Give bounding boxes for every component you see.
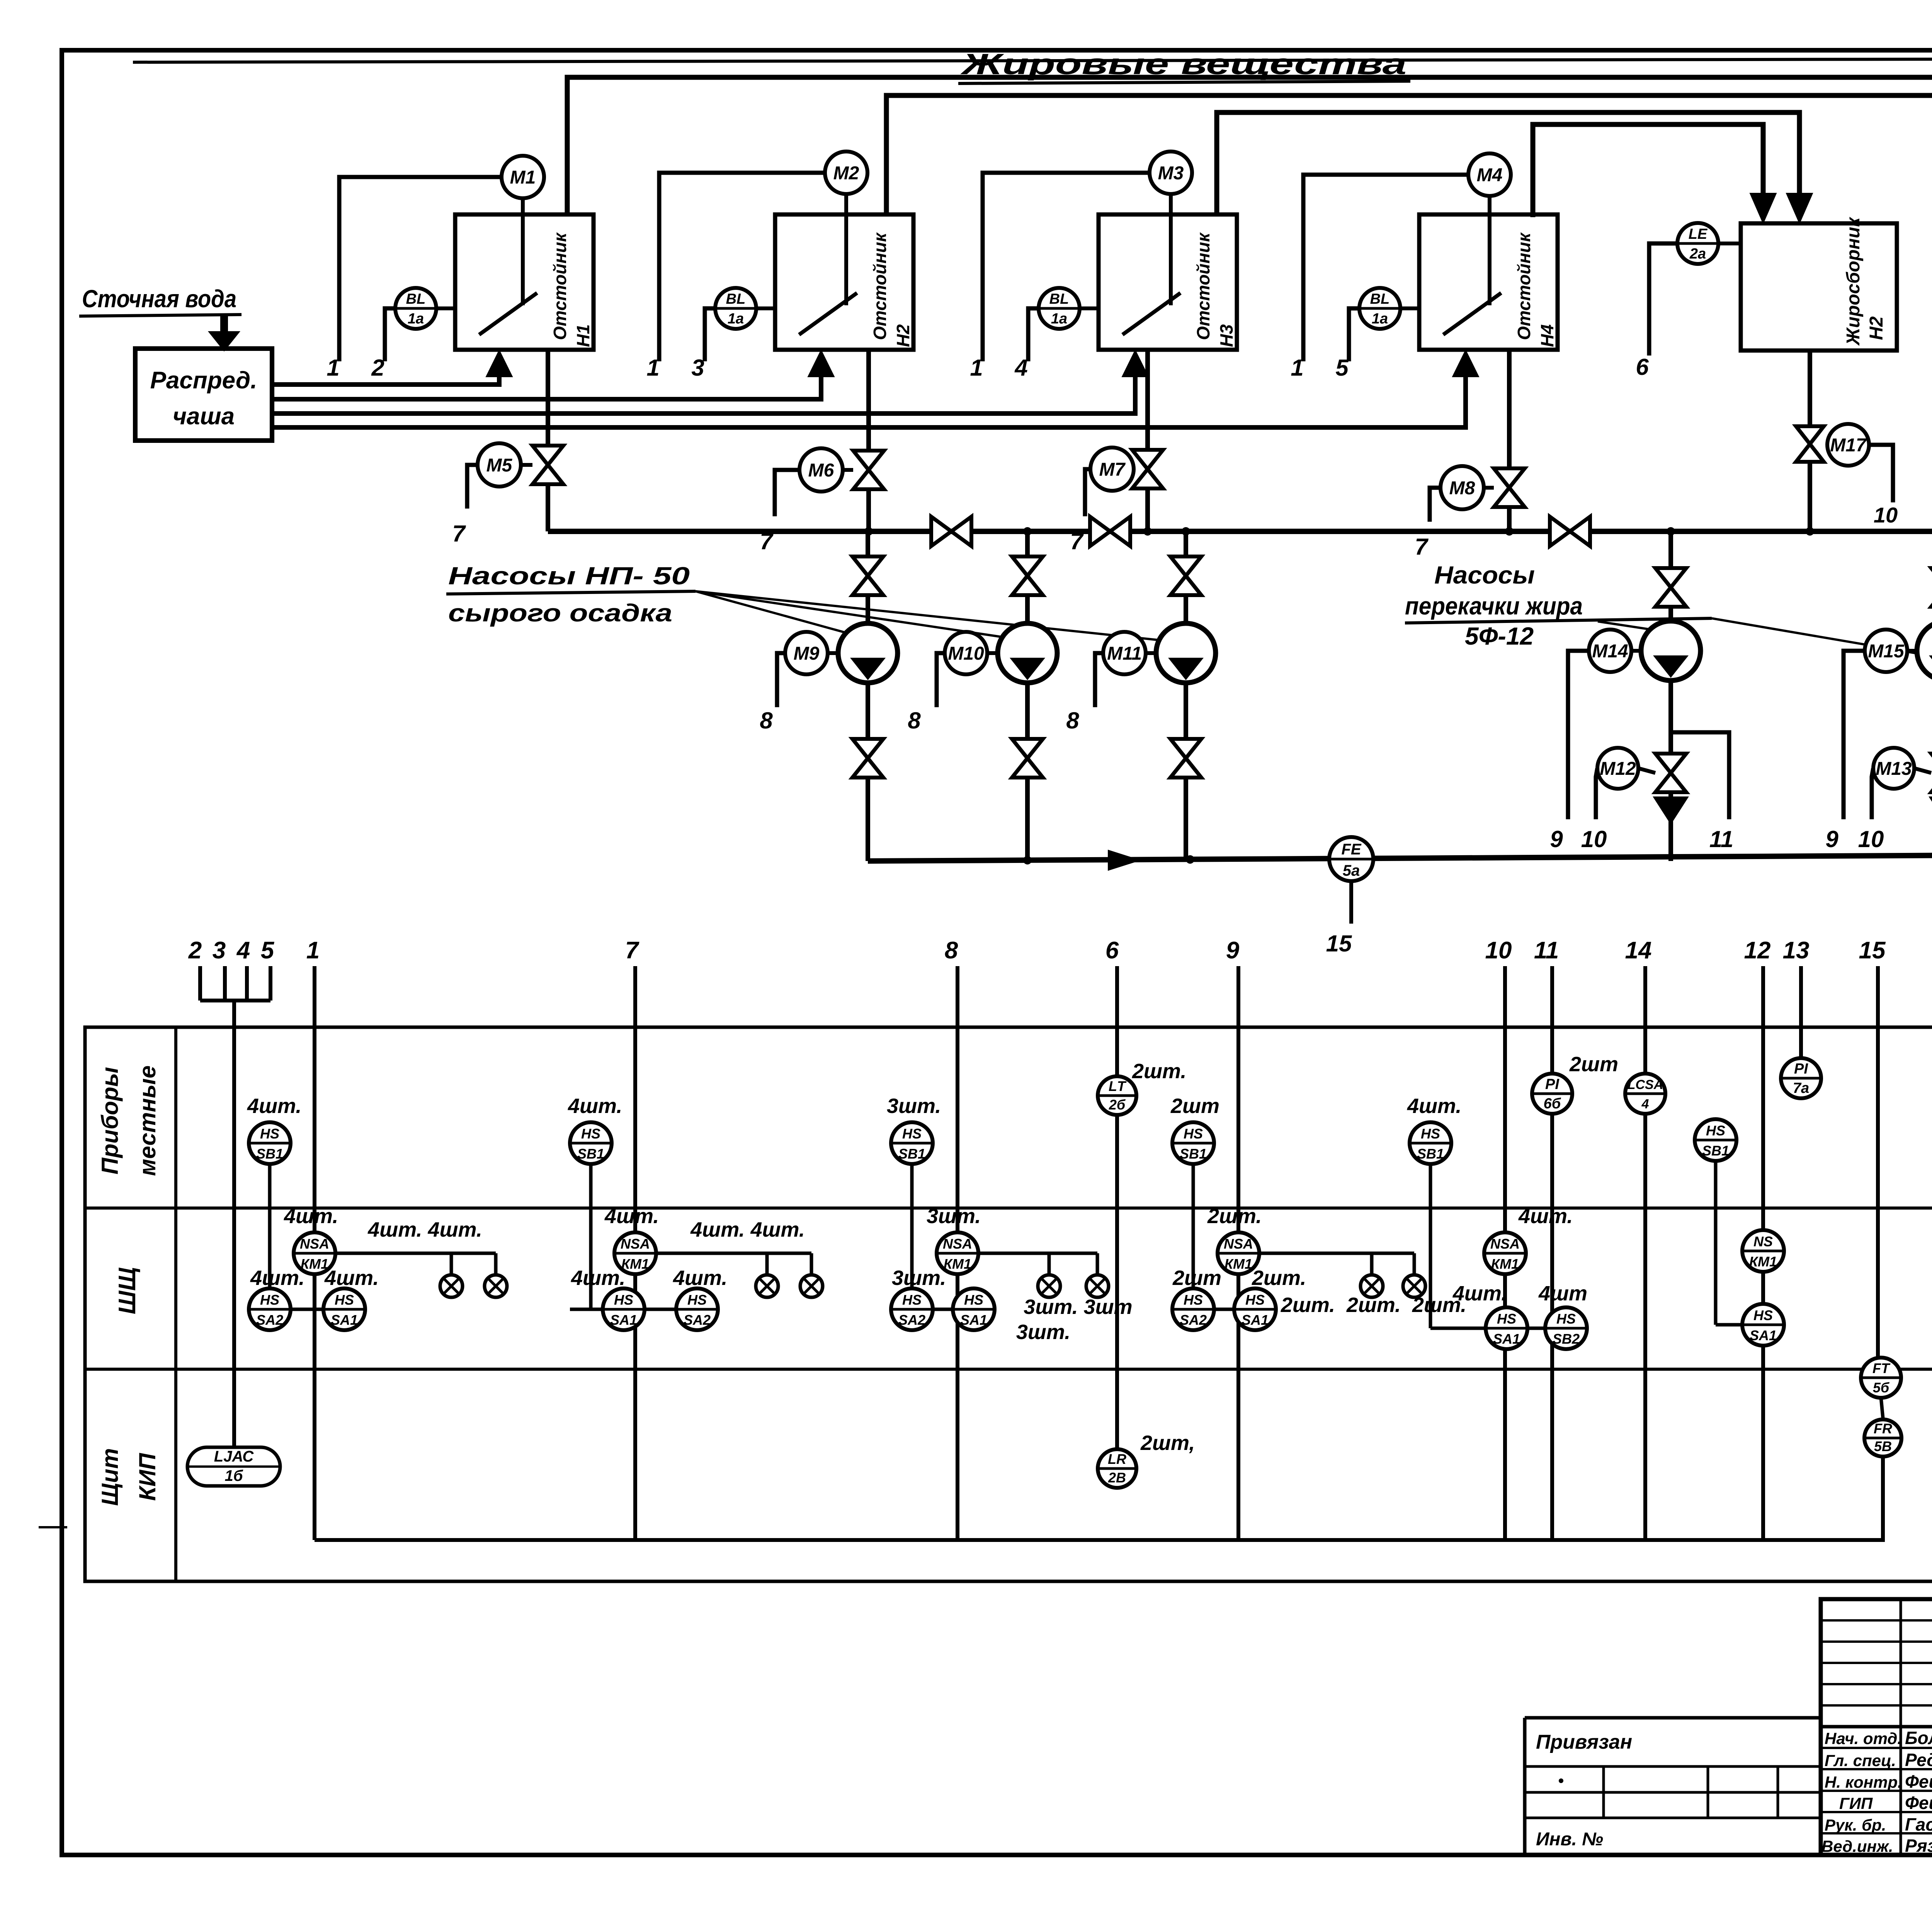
svg-text:SА1: SА1 [1242,1312,1269,1328]
wire М5 cable to stub 7 [452,465,478,546]
level controller LCSA/4 [1625,1074,1665,1114]
svg-text:8: 8 [908,708,921,733]
svg-text:7: 7 [452,521,466,546]
motor М7 [1090,448,1134,491]
svg-text:Жиросборник: Жиросборник [1843,216,1864,346]
svg-text:Фешин: Фешин [1905,1771,1932,1792]
svg-text:Отстойник: Отстойник [870,232,890,340]
contactor NSA/KM1 bay A [284,1205,338,1274]
svg-text:2а: 2а [1689,246,1706,262]
svg-text:LЕ: LЕ [1689,226,1708,242]
row label Приборы местные [97,1065,160,1176]
motor М8 [1440,466,1494,509]
svg-text:1: 1 [970,355,983,381]
wire motor М1 cable to stub 1 [327,177,502,381]
svg-text:4шт.: 4шт. [673,1266,727,1290]
valve on header left 1 [931,517,971,546]
svg-text:ВL: ВL [1049,291,1069,307]
svg-text:Щит: Щит [97,1448,123,1506]
svg-text:SА1: SА1 [1750,1327,1777,1343]
svg-text:М13: М13 [1876,759,1912,779]
position switch BL/1a of tank Н3 [1039,288,1099,329]
svg-text:М14: М14 [1592,641,1628,662]
svg-text:4шт.: 4шт. [324,1266,379,1290]
valve above pump М11 [1170,556,1201,595]
svg-text:КМ1: КМ1 [944,1256,971,1272]
valve of М5 [532,446,563,484]
wire fat line 3 from tank N3 to Жиросборник N2 [1217,112,1813,223]
svg-text:SА2: SА2 [898,1312,925,1328]
wire BL/1a cable to stub 4 [1014,308,1039,381]
svg-text:1а: 1а [408,311,424,327]
wire riser 12 [1761,966,1765,1540]
svg-text:4шт: 4шт [1538,1282,1587,1305]
svg-text:4: 4 [1641,1097,1649,1111]
wire riser 7 [633,966,637,1540]
svg-text:НS: НS [902,1126,922,1142]
hand switch HS/SA2 bay B [673,1266,727,1330]
arrow on line [1108,850,1140,870]
svg-text:5В: 5В [1874,1438,1892,1454]
svg-text:4шт.: 4шт. [284,1205,338,1228]
flow transmitter FT/5б [1861,1358,1901,1418]
svg-text:3шт.: 3шт. [927,1205,981,1228]
pipe below pump М11 [1184,683,1188,861]
svg-text:НS: НS [902,1292,922,1308]
pump НП-50 М11 [1156,623,1216,683]
valve below pump М9 [852,739,883,778]
svg-text:НS: НS [1706,1123,1725,1138]
svg-text:чаша: чаша [173,403,235,430]
svg-text:1: 1 [646,355,659,381]
lamps bay A [335,1218,507,1297]
hand switch HS/SB1 bay B [570,1122,612,1309]
svg-text:8: 8 [945,937,958,964]
svg-text:3шт.: 3шт. [1016,1321,1070,1344]
svg-text:2В: 2В [1108,1470,1126,1486]
svg-text:Отстойник: Отстойник [1514,232,1534,340]
level recorder LR/2В [1098,1431,1195,1488]
valve below pump М11 [1170,739,1201,778]
svg-text:7а: 7а [1793,1080,1809,1096]
wire М10 cable to stub 8 [908,653,945,733]
svg-text:6б: 6б [1544,1096,1561,1112]
hand switch HS/SB1 bay C [891,1122,933,1309]
wire М14 cable to stub 9 [1550,651,1589,852]
valve below pump М10 [1012,739,1043,778]
svg-text:М5: М5 [486,455,513,476]
svg-text:14: 14 [1625,937,1652,964]
svg-text:1б: 1б [224,1467,243,1484]
wire fat line 2 from tank N2 to Жиросборник N1 [886,95,1932,223]
pipe outlet of tank at x2970 [1145,350,1150,531]
lamps bay B [656,1218,823,1297]
svg-text:НS: НS [1556,1311,1576,1327]
motor М15 [1865,630,1917,672]
svg-text:2шт.: 2шт. [1132,1060,1186,1083]
svg-text:3шт.: 3шт. [892,1266,946,1290]
svg-text:SА1: SА1 [331,1312,358,1328]
svg-text:8: 8 [1066,708,1079,733]
motor М5 [478,443,532,487]
motor М4 [1468,153,1511,196]
svg-text:9: 9 [1825,826,1838,852]
valve of М6 [853,451,884,489]
svg-text:НS: НS [1245,1292,1265,1308]
svg-text:КМ1: КМ1 [1749,1254,1777,1269]
motor М9 [785,632,838,674]
svg-text:SВ1: SВ1 [1417,1146,1444,1162]
svg-text:6: 6 [1636,354,1649,380]
svg-text:Вед.инж.: Вед.инж. [1821,1837,1893,1855]
position switch BL/1a of tank Н2 [715,288,775,329]
svg-text:Сточная вода: Сточная вода [82,285,236,313]
svg-text:М1: М1 [510,167,536,188]
svg-text:FR: FR [1874,1421,1892,1436]
svg-text:10: 10 [1874,503,1898,527]
wire М15 cable to stub 9 [1825,651,1865,852]
svg-text:2: 2 [371,355,384,381]
wire BL/1a cable to stub 2 [371,308,395,381]
svg-text:10: 10 [1858,826,1884,852]
wire М11 cable to stub 8 [1066,653,1103,733]
wire М8 cable to stub 7 [1415,488,1440,560]
svg-text:2шт.: 2шт. [1346,1293,1401,1317]
pipe pressure line emptying [868,852,1932,864]
svg-text:4шт.: 4шт. [1518,1205,1573,1228]
hand switch HS/SB1 bay F [1695,1119,1742,1325]
fat collector Жиросборник N2 [1741,216,1897,351]
svg-text:3шт. 3шт: 3шт. 3шт [1024,1295,1132,1319]
wire risers 2 3 4 5 merge [200,966,270,1447]
wire inlet arrow [209,316,240,351]
svg-text:Рязанова: Рязанова [1905,1836,1932,1856]
hand switch HS/SA2 bay A [249,1266,365,1330]
svg-text:SВ1: SВ1 [256,1146,283,1162]
hand switch HS/SB1 bay A [249,1122,291,1309]
svg-text:SА1: SА1 [960,1312,987,1328]
svg-text:Н2: Н2 [1866,316,1887,340]
motor М12 [1597,748,1655,789]
svg-text:НS: НS [1421,1126,1440,1142]
pipe outlet of tank at x2248 [866,350,871,531]
svg-text:М17: М17 [1830,435,1867,456]
valve on header left 2 [1090,517,1130,546]
pipe outlet of tank at x1418 [546,350,550,531]
svg-text:2шт: 2шт [1172,1266,1221,1290]
svg-text:4шт.: 4шт. [1452,1282,1507,1305]
svg-text:1а: 1а [1372,311,1388,327]
valve on header right [1550,517,1590,546]
lamps bay C [978,1253,1133,1344]
svg-text:НS: НS [1497,1311,1516,1327]
fold mark [39,1526,67,1528]
svg-text:Привязан: Привязан [1536,1731,1632,1753]
wire riser 6 [1115,966,1119,1450]
svg-text:М7: М7 [1099,459,1126,480]
wire FE/5a stub 15 [1326,881,1352,956]
wire М13 cable to stub 10 [1858,768,1884,852]
settling tank Отстойник Н2 [775,194,913,350]
svg-text:М9: М9 [794,643,820,664]
svg-text:2шт.: 2шт. [1281,1293,1335,1317]
settling tank Отстойник Н4 [1419,196,1558,350]
svg-text:NSА: NSА [1490,1236,1520,1252]
svg-text:РI: РI [1545,1076,1560,1092]
wire bottom bus [315,1457,1883,1540]
svg-text:2шт: 2шт [1170,1094,1219,1118]
pipe distribution line 1 to tank N1 [272,350,512,385]
hand switch HS/SB1 bay D [1172,1122,1214,1309]
svg-text:5Ф-12: 5Ф-12 [1465,622,1534,650]
svg-text:LR: LR [1108,1451,1126,1467]
valve above pump М10 [1012,556,1043,595]
flow recorder FR/5В [1864,1419,1901,1457]
svg-text:М8: М8 [1449,478,1475,499]
wire motor М2 cable to stub 1 [646,173,825,381]
svg-text:ГИП: ГИП [1839,1794,1873,1812]
svg-text:КМ1: КМ1 [1225,1256,1252,1272]
svg-text:КМ1: КМ1 [1491,1256,1519,1272]
hand switch HS/SA2 bay D [1172,1266,1276,1330]
svg-text:SА1: SА1 [610,1312,637,1328]
svg-text:ВL: ВL [1370,291,1390,307]
label Сточная вода [79,285,241,316]
svg-text:Н4: Н4 [1537,324,1557,347]
pipe sludge collector header [548,527,1932,536]
label 2шт bay D SB1 [1170,1094,1219,1118]
motor М2 [825,151,867,194]
hand switch HS/SA1 bay C [953,1288,995,1330]
svg-text:ВL: ВL [726,291,746,307]
label Насосы перекачки жира 5Ф-12 [1405,561,1920,654]
svg-text:4: 4 [236,937,250,964]
svg-text:Рук. бр.: Рук. бр. [1825,1816,1886,1834]
svg-text:4шт.: 4шт. [604,1205,659,1228]
svg-text:3шт.: 3шт. [887,1094,941,1118]
lamps bay D [1259,1253,1466,1317]
wire riser 10 [1503,966,1507,1540]
svg-text:SА1: SА1 [1493,1331,1520,1347]
label 4шт. bay B SB1 [568,1094,622,1118]
pipe distribution line 3 to tank N3 [272,350,1148,414]
svg-text:4: 4 [1014,355,1027,381]
svg-text:Н. контр.: Н. контр. [1825,1773,1902,1791]
instrument table frame [85,1027,1932,1581]
valve above pump М9 [852,556,883,595]
wire М6 cable to stub 7 [760,470,799,554]
position switch BL/1a of tank Н1 [395,288,455,329]
label 4шт. bay E SB1 [1407,1094,1461,1118]
contactor NSA/KM1 bay B [604,1205,659,1274]
svg-text:М6: М6 [808,460,834,481]
svg-text:Отстойник: Отстойник [1193,232,1213,340]
pipe below pump М10 [1025,683,1030,861]
svg-text:1: 1 [1291,355,1303,381]
wire BL/1a cable to stub 5 [1335,308,1359,381]
svg-text:5б: 5б [1873,1380,1890,1395]
svg-text:Насосы НП- 50: Насосы НП- 50 [448,562,690,590]
row label Щит КИП [97,1448,160,1506]
svg-text:НS: НS [581,1126,600,1142]
pipe outlet Жиросборник at x4684 [1808,351,1812,531]
svg-text:4шт.: 4шт. [247,1094,301,1118]
level sensor LE/2a of Жиросборник N2 [1677,223,1743,264]
settling tank Отстойник Н1 [455,198,594,350]
motor М3 [1150,151,1192,194]
svg-text:4шт.: 4шт. [571,1266,625,1290]
wire motor М4 cable to stub 1 [1291,175,1468,381]
valve above pump М14 [1655,568,1686,607]
svg-text:КМ1: КМ1 [621,1256,649,1272]
svg-text:SВ1: SВ1 [577,1146,604,1162]
hand switch HS/SA1 bay B [570,1266,718,1330]
wire LE/2a to stub 6 left [1636,243,1677,380]
svg-text:NSА: NSА [621,1236,650,1252]
svg-text:Н1: Н1 [573,324,593,347]
motor М1 [502,156,544,198]
svg-text:НS: НS [335,1292,354,1308]
svg-text:SВ1: SВ1 [1180,1146,1207,1162]
pump 5Ф-12 М15 [1917,621,1932,681]
svg-text:2б: 2б [1109,1097,1126,1113]
pressure indicator PI/7а [1781,1058,1821,1098]
svg-text:Насосы: Насосы [1434,561,1535,589]
row label ШЩ [114,1267,141,1314]
svg-text:НS: НS [260,1292,279,1308]
svg-text:15: 15 [1859,937,1886,964]
svg-text:SВ1: SВ1 [898,1146,925,1162]
svg-text:2шт,: 2шт, [1140,1431,1195,1455]
svg-text:ШЩ: ШЩ [114,1267,141,1314]
svg-text:5а: 5а [1343,862,1360,879]
title block main frame [1821,1599,1932,1855]
svg-text:NSА: NSА [943,1236,972,1252]
wire riser 14 [1643,966,1647,1540]
wire motor М3 cable to stub 1 [970,173,1150,381]
svg-text:LТ: LТ [1109,1078,1127,1094]
svg-text:5: 5 [261,937,275,964]
check valve below М15 [1929,797,1932,824]
svg-text:Н3: Н3 [1216,324,1236,347]
svg-text:Н2: Н2 [893,324,913,347]
hand switch HS/SA1 bay F [1742,1304,1784,1346]
svg-text:Нач. отд.: Нач. отд. [1825,1729,1902,1748]
wire fat line 1 from tank N1 to Жиросборник N1 [567,77,1932,223]
svg-text:6: 6 [1105,937,1119,964]
title roles [1821,1728,1932,1856]
svg-text:1: 1 [327,355,339,381]
svg-text:15: 15 [1326,931,1352,956]
svg-text:4шт.: 4шт. [250,1266,304,1290]
valve М12 [1655,754,1686,792]
svg-text:7: 7 [1415,534,1429,560]
svg-text:12: 12 [1744,937,1771,964]
svg-text:перекачки жира: перекачки жира [1405,592,1583,620]
hand switch HS/SB1 bay E [1410,1122,1545,1328]
svg-text:SВ2: SВ2 [1553,1331,1580,1347]
svg-text:8: 8 [760,708,773,733]
pump НП-50 М9 [838,623,898,683]
level controller LJAC/1б [187,1447,280,1486]
svg-text:КИП: КИП [134,1453,160,1501]
pipe drop to pump М14 [1668,531,1673,621]
svg-text:М10: М10 [948,643,984,664]
hand switch NS/SB2 bay E [1538,1282,1587,1349]
level transmitter LT/2б [1098,1060,1186,1115]
motor М6 [799,448,853,492]
svg-text:НS: НS [687,1292,707,1308]
svg-text:Фешин: Фешин [1905,1793,1932,1813]
svg-text:1а: 1а [728,311,744,327]
wire riser 15 [1876,966,1880,1358]
wire riser 1 [313,966,316,1540]
svg-text:Инв. №: Инв. № [1536,1829,1603,1850]
svg-text:М11: М11 [1107,643,1142,664]
flow element FE/5a [1329,837,1373,881]
svg-text:Приборы: Приборы [97,1067,123,1174]
svg-text:3: 3 [691,355,704,381]
svg-text:5: 5 [1335,355,1349,381]
svg-text:Гл. спец.: Гл. спец. [1825,1751,1896,1770]
valve of М17 [1796,426,1824,462]
svg-text:LJАС: LJАС [214,1448,254,1465]
svg-text:SА2: SА2 [684,1312,711,1328]
motor М11 [1103,632,1156,674]
pipe below pump М14 [1668,681,1673,861]
svg-text:1а: 1а [1051,311,1067,327]
pipe distribution line 2 to tank N2 [272,350,834,399]
binding box Привязан [1525,1718,1821,1855]
svg-text:НS: НS [260,1126,279,1142]
svg-text:М4: М4 [1477,165,1503,185]
svg-text:SВ1: SВ1 [1702,1143,1729,1159]
wire М9 cable to stub 8 [760,653,785,733]
svg-text:10: 10 [1485,937,1512,964]
motor М17 [1827,424,1869,466]
svg-text:11: 11 [1709,826,1733,852]
svg-text:FТ: FТ [1872,1360,1891,1376]
hand switch HS/SA1 bay A [323,1266,379,1330]
wire riser 13 [1799,966,1803,1099]
svg-text:4шт.: 4шт. [1407,1094,1461,1118]
settling tank Отстойник Н3 [1099,194,1237,350]
distribution bowl Распред. чаша [135,349,272,441]
svg-text:4шт.: 4шт. [568,1094,622,1118]
wire riser 8 [956,966,959,1540]
pipe outlet of tank at x3906 [1507,350,1512,531]
label 3шт. bay C SB1 [887,1094,941,1118]
pump НП-50 М10 [998,623,1057,683]
svg-text:2шт.: 2шт. [1207,1205,1262,1228]
contactor NSA/KM1 bay E [1484,1205,1573,1274]
svg-text:М3: М3 [1158,163,1184,184]
svg-text:М12: М12 [1600,759,1636,779]
wire BL/1a cable to stub 3 [691,308,715,381]
hand switch HS/SA2 bay C [891,1266,995,1330]
position switch BL/1a of tank Н4 [1359,288,1419,329]
svg-text:11: 11 [1534,937,1559,964]
valve М13 [1931,754,1932,792]
svg-text:Гасумянц: Гасумянц [1905,1814,1932,1834]
contactor NSA/KM1 bay D [1207,1205,1262,1274]
pipe drop to pump М10 [1025,531,1030,623]
wire riser 9 [1236,966,1240,1540]
svg-text:Редникин: Редникин [1905,1750,1932,1770]
pump 5Ф-12 М14 [1641,621,1701,681]
svg-text:РI: РI [1794,1061,1808,1077]
svg-text:ВL: ВL [406,291,426,307]
